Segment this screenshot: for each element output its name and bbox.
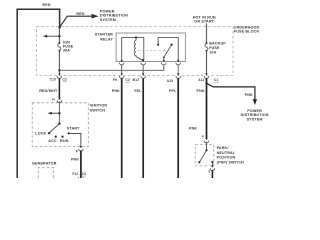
wire backup fuse output [206, 51, 208, 74]
wire hot feed down to backup fuse [206, 23, 208, 43]
connector at ignition switch pin F [79, 146, 84, 151]
PNP switch input wire and pivot [205, 142, 207, 152]
relay coil circuit wiring [122, 38, 144, 62]
svg-text:UNDERHOOD: UNDERHOOD [234, 25, 260, 29]
relay armature [163, 44, 173, 62]
svg-text:ACC: ACC [48, 139, 57, 143]
pin 3 label [208, 170, 210, 174]
ignition switch internal wire [58, 101, 60, 123]
label BACKUP FUSE 10A [209, 42, 226, 55]
wire PNP output down [211, 170, 213, 178]
label PARK/NEUTRAL POSITION (PNP) SWITCH [217, 146, 245, 165]
connector exit A10 [167, 73, 181, 83]
underhood fuse block (dashed box) [37, 27, 234, 76]
svg-text:RELAY: RELAY [100, 38, 113, 42]
svg-text:OR START: OR START [194, 20, 214, 24]
relay pin 2 connector [141, 60, 146, 65]
contact START [67, 127, 80, 135]
connector at PNP switch pin 4 [204, 138, 209, 143]
label RED (top) [42, 3, 50, 7]
relay linkage (dashed) [138, 49, 168, 51]
svg-text:IGNITION: IGNITION [90, 103, 108, 107]
connector exit C10/C2 (ignition feed) [50, 73, 67, 81]
park/neutral position switch (dashed box) [195, 144, 214, 166]
label IGNITION SWITCH [90, 103, 108, 112]
PNP switch fixed contact [211, 161, 213, 166]
starter relay box [116, 33, 185, 62]
relay pin 1 connector [119, 60, 124, 65]
svg-text:FUSE BLOCK: FUSE BLOCK [234, 30, 260, 34]
label PNK (right column upper) [197, 89, 205, 93]
svg-text:SYSTEM: SYSTEM [100, 18, 116, 22]
ignition switch (dashed box) [32, 103, 88, 147]
label STARTER RELAY [95, 33, 114, 42]
svg-text:PNK: PNK [189, 126, 197, 130]
svg-text:PARK/: PARK/ [217, 146, 229, 150]
wire PNK (ignition switch output) [80, 150, 82, 178]
relay pin 4 connector [176, 60, 181, 65]
svg-text:SYSTEM: SYSTEM [247, 117, 263, 121]
node above IGN fuse [58, 35, 60, 37]
svg-text:RUN: RUN [60, 139, 69, 143]
contact LOCK [35, 132, 50, 136]
node: branch to power distribution (right) [205, 82, 207, 84]
pin H label [52, 98, 55, 102]
wire PNK (backup fuse down to PNP switch) [206, 78, 208, 138]
svg-text:YEL: YEL [134, 89, 142, 93]
wire relay pin 2 stub [142, 65, 144, 74]
svg-text:PNK: PNK [112, 89, 120, 93]
label PNK (ignition output) [71, 157, 79, 161]
svg-text:PNK: PNK [197, 89, 205, 93]
label IGN FUSE 30A [63, 41, 74, 53]
svg-text:SWITCH: SWITCH [90, 109, 106, 113]
relay pin 3 connector [162, 60, 167, 65]
label UNDERHOOD FUSE BLOCK [234, 25, 260, 33]
label POWER DISTRIBUTION SYSTEM (top) [100, 9, 128, 22]
wire relay pin 4 stub [177, 65, 179, 74]
wire PNK (relay pin1 down) [121, 78, 123, 178]
svg-text:PNK: PNK [71, 157, 79, 161]
contact RUN [60, 136, 69, 143]
label PNK (PNP feed) [189, 126, 197, 130]
svg-text:START: START [67, 127, 80, 131]
label HOT IN RUN OR START [193, 15, 216, 23]
svg-text:NEUTRAL: NEUTRAL [217, 151, 236, 155]
label RED (arrow) [76, 12, 84, 16]
wire IGN fuse output down to junction [58, 51, 60, 74]
svg-text:C2: C2 [62, 77, 66, 81]
connector exit B12 [133, 73, 146, 82]
svg-text:RED: RED [76, 12, 84, 16]
wire horizontal feed to relay pin 3 [59, 65, 163, 70]
connector F12/C3 [72, 172, 86, 180]
node: junction at fuse block entry [58, 26, 61, 29]
svg-text:B12: B12 [133, 78, 139, 82]
svg-text:4: 4 [202, 135, 204, 139]
svg-text:GENERATOR: GENERATOR [32, 161, 57, 165]
wire from START contact to pin F [69, 133, 81, 146]
fuse IGN 30A [58, 42, 61, 52]
svg-text:F9: F9 [113, 78, 117, 82]
wire branch to power distribution (top arrow) [60, 14, 99, 27]
label YEL [134, 89, 142, 93]
svg-text:A11: A11 [198, 78, 204, 82]
relay switch fixed contact and common wiring [157, 38, 178, 62]
label PPL [169, 89, 177, 93]
label PNK (branch) [245, 93, 253, 97]
svg-text:3: 3 [208, 170, 210, 174]
PNP switch movable arm [198, 150, 206, 163]
svg-text:F: F [76, 150, 78, 154]
svg-text:C3: C3 [82, 172, 86, 176]
svg-text:PNK: PNK [245, 93, 253, 97]
svg-text:30A: 30A [63, 48, 70, 52]
wire branch to power distribution (right arrow) [207, 83, 258, 105]
node: junction to relay feed [58, 69, 60, 71]
pin 4 label [202, 135, 204, 139]
branch arrow to other circuits (left) [43, 35, 60, 38]
connector at ignition switch pin H [57, 98, 62, 103]
svg-text:POSITION: POSITION [217, 156, 236, 160]
svg-text:F12: F12 [72, 172, 78, 176]
connector exit F9/C2 [113, 73, 130, 82]
svg-text:10A: 10A [209, 51, 216, 55]
svg-text:A10: A10 [167, 79, 173, 83]
wire YEL (relay pin2 down) [142, 78, 144, 178]
wire RED/WHT to ignition switch [58, 78, 60, 99]
svg-text:STARTER: STARTER [95, 33, 113, 37]
label PNK [112, 89, 120, 93]
connector at PNP switch pin 3 [210, 166, 215, 171]
connector exit A11/C1 [198, 73, 218, 82]
svg-text:LOCK: LOCK [35, 132, 46, 136]
svg-text:PPL: PPL [169, 89, 177, 93]
svg-text:(PNP) SWITCH: (PNP) SWITCH [217, 161, 245, 165]
node with branch arrow (accessory feed) [48, 112, 61, 115]
ignition switch rotor arm (at LOCK) [49, 123, 61, 134]
pin F label [76, 150, 78, 154]
node at coil top [135, 36, 137, 38]
label POWER DISTRIBUTION SYSTEM (right) [241, 109, 269, 121]
generator (dashed box, partial) [32, 161, 57, 178]
svg-text:C10: C10 [50, 77, 56, 81]
wire relay pin 1 stub [121, 65, 123, 74]
svg-text:RED/WHT: RED/WHT [39, 89, 58, 93]
svg-text:C2: C2 [125, 78, 129, 82]
relay coil [134, 38, 143, 62]
fuse BACKUP 10A [205, 42, 208, 52]
wire RED feed (left tall run, top run, drop to fuse block) [17, 9, 59, 178]
contact ACC [48, 136, 57, 143]
svg-text:RED: RED [42, 3, 50, 7]
svg-text:FUSE: FUSE [209, 46, 220, 50]
wire inside fuse block from entry node to IGN fuse and down [58, 27, 60, 43]
wire PPL (relay pin4 down) [177, 78, 179, 178]
svg-text:C1: C1 [214, 78, 218, 82]
label RED/WHT [39, 89, 58, 93]
